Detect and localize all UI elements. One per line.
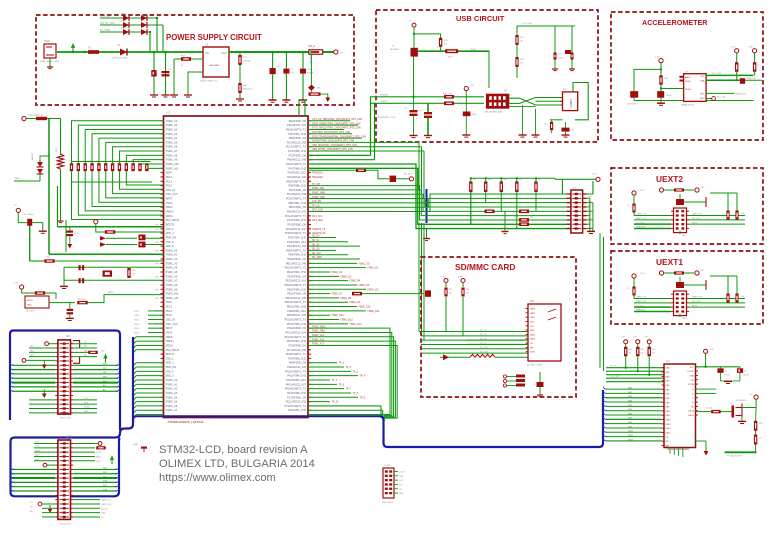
svg-text:FSMC_A5: FSMC_A5 [166, 401, 178, 404]
svg-text:LM1117-IMPX-3.3: LM1117-IMPX-3.3 [200, 81, 218, 83]
svg-text:PA5/USART3_TX: PA5/USART3_TX [286, 180, 306, 183]
UEXT2 resistor left [632, 204, 635, 213]
svg-text:COM: COM [530, 352, 535, 354]
svg-text:MOSI: MOSI [692, 305, 698, 307]
svg-text:47k: 47k [444, 44, 447, 46]
wires mcu bottom-left stubs to bus group1 [136, 336, 163, 338]
wire vbus drop to connector [488, 51, 490, 89]
svg-text:USB-MINIAB-SMD: USB-MINIAB-SMD [484, 111, 503, 114]
svg-text:PG12: PG12 [134, 324, 140, 326]
svg-text:JTCK_SWCLK/TIM1_CH2/USART1_RTS: JTCK_SWCLK/TIM1_CH2/USART1_RTS_CAN [312, 127, 361, 130]
svg-text:DB15: DB15 [666, 433, 672, 435]
svg-text:FSMC_NBL0: FSMC_NBL0 [312, 326, 326, 328]
lcd supply resistors x3 [624, 340, 628, 344]
svg-text:10k: 10k [466, 293, 469, 295]
svg-text:TP_CS: TP_CS [312, 205, 320, 207]
terminal 5V output [334, 50, 338, 54]
wire usb top rail to cap [517, 25, 575, 27]
wire rail above resistor row [72, 161, 151, 163]
terminal +5V mid [464, 86, 468, 90]
wire net JTCK_SWCLK [308, 128, 344, 130]
svg-text:FSMC_D1: FSMC_D1 [368, 268, 379, 270]
backlight bottom rail [755, 445, 757, 453]
diode D3 row [100, 24, 163, 26]
terminal 5V backlight [754, 395, 758, 399]
svg-text:OSC_OUT: OSC_OUT [166, 323, 179, 326]
wire 3v3 trunk to row 227 [57, 186, 59, 227]
wire rail below resistor row [72, 181, 153, 183]
wires sd riser verticals [418, 223, 420, 332]
svg-text:PA7/FSMC_D0: PA7/FSMC_D0 [289, 189, 307, 192]
svg-text:FSMC_A8: FSMC_A8 [166, 284, 178, 287]
jumper JP boot [390, 176, 397, 182]
terminal RST_E [94, 220, 98, 224]
EXT1 red arrow left upper [42, 365, 47, 370]
svg-text:FSMC_A17: FSMC_A17 [312, 343, 325, 346]
svg-text:GND: GND [399, 493, 404, 495]
svg-text:MF-MSMF: MF-MSMF [390, 49, 400, 51]
svg-text:PE4/USART3_TX: PE4/USART3_TX [286, 128, 306, 131]
svg-text:VDDA: VDDA [166, 344, 173, 347]
wire vbus row [418, 50, 489, 52]
EXT1 circle row0 [45, 342, 49, 346]
bus blue loop 1 around EXT1 connector [10, 331, 120, 431]
svg-text:GND: GND [690, 375, 695, 377]
svg-text:PC14: PC14 [166, 180, 173, 183]
lcd controller IC3 body [664, 364, 696, 448]
svg-text:VDD: VDD [530, 321, 535, 323]
svg-text:VDD_1: VDD_1 [166, 232, 175, 235]
svg-text:FSMC_A3: FSMC_A3 [166, 133, 178, 136]
svg-text:ADJ/GND: ADJ/GND [210, 64, 219, 67]
sd card detect circles [503, 375, 506, 378]
esd protection IC U3 [563, 92, 578, 111]
wires lcd top feed rows [625, 356, 627, 367]
svg-text:LED-A: LED-A [688, 410, 695, 413]
svg-text:VSS_5: VSS_5 [166, 370, 174, 373]
svg-text:3.3V_MCU_E: 3.3V_MCU_E [28, 114, 43, 117]
caps C5 C7 C10 output filters [272, 52, 274, 68]
wire row 294 with resistor and jumper [352, 292, 362, 296]
wire diode feed verticals [156, 18, 158, 52]
svg-text:1k: 1k [759, 438, 761, 440]
svg-text:PC1/USART1_TX: PC1/USART1_TX [286, 146, 306, 149]
pullup resistors lcd x5 [469, 181, 472, 192]
svg-text:FSMC_D12: FSMC_D12 [332, 315, 345, 317]
svg-text:PA13/ADC12_IN7: PA13/ADC12_IN7 [286, 383, 307, 386]
cap C lcd 1 [717, 368, 723, 373]
svg-text:10k: 10k [628, 353, 631, 355]
svg-text:PE6/FSMC_D4: PE6/FSMC_D4 [289, 137, 307, 140]
svg-text:PG11: PG11 [134, 320, 140, 322]
svg-text:10k: 10k [652, 353, 655, 355]
cap C3 input [165, 52, 167, 95]
svg-text:SS14: SS14 [121, 13, 127, 15]
svg-text:SS14: SS14 [121, 20, 127, 22]
svg-text:USB6B1: USB6B1 [570, 98, 573, 108]
svg-text:FSMC_D11: FSMC_D11 [368, 311, 381, 313]
lcd controller left pins [662, 367, 665, 369]
svg-text:GND: GND [588, 222, 593, 224]
svg-text:DB13: DB13 [666, 424, 672, 426]
mcu left pin name labels [161, 120, 165, 122]
svg-text:VREF-: VREF- [166, 336, 174, 339]
EXT1 top rows right [73, 343, 97, 345]
crystal gnd stub [63, 280, 65, 286]
svg-text:3.3V: 3.3V [655, 57, 660, 59]
svg-text:SD/MMC CARD: SD/MMC CARD [455, 262, 515, 272]
svg-text:CMD: CMD [530, 317, 535, 319]
svg-text:FSMC_NWE: FSMC_NWE [312, 192, 326, 194]
svg-text:EXT2_CON: EXT2_CON [60, 524, 71, 526]
resistor PTC vertical at regulator out [238, 55, 241, 65]
wire net USB_P [308, 150, 424, 152]
svg-text:R_LED: R_LED [706, 408, 713, 410]
svg-text:GND: GND [27, 305, 32, 307]
wire net OTG_FS_VBUS [308, 120, 350, 122]
svg-text:PG13: PG13 [134, 328, 140, 330]
svg-text:FSMC_A6: FSMC_A6 [166, 405, 178, 408]
gnd down arrow bottom right [705, 447, 707, 452]
series resistors R41 R42 stacked [519, 218, 529, 222]
wire dp to mcu [308, 159, 375, 161]
terminal 3.3V sd 2 [461, 279, 465, 283]
svg-text:PA12/FSMC_D12: PA12/FSMC_D12 [286, 379, 306, 382]
svg-text:3.3V: 3.3V [640, 190, 645, 192]
svg-text:PA1/USART2_TX: PA1/USART2_TX [286, 163, 306, 166]
svg-text:PD10/USART2_TX: PD10/USART2_TX [284, 319, 306, 322]
svg-text:FSMC_D10: FSMC_D10 [359, 307, 372, 309]
terminal 3.3V sd 1 [444, 279, 448, 283]
svg-text:PB10/USART3_TX: PB10/USART3_TX [285, 284, 307, 287]
EXT1 circle mid terminal [22, 359, 26, 363]
svg-text:FSMC_A1: FSMC_A1 [166, 254, 178, 257]
svg-text:FSMC_A0: FSMC_A0 [166, 120, 178, 123]
svg-text:I2C1_SDA: I2C1_SDA [312, 219, 323, 222]
terminal 3.3V lcd rail [596, 177, 600, 181]
caps pair left mid [67, 231, 74, 233]
svg-text:GND: GND [588, 201, 593, 203]
svg-text:SD_MMC_CARD: SD_MMC_CARD [527, 364, 543, 367]
feedback resistor R54 [181, 57, 191, 61]
diode D4 row [100, 31, 150, 33]
diode D1 on rail [120, 49, 127, 56]
svg-text:X-: X- [692, 402, 694, 404]
UEXT1 cap red [676, 282, 684, 288]
accel IC U4 MMA8452Q [684, 74, 707, 102]
UEXT1 cap gnd tee [684, 284, 706, 286]
accel pullup 1 [735, 49, 739, 53]
jtag mini header [383, 468, 394, 498]
svg-text:OLIMEX LTD, BULGARIA 2014: OLIMEX LTD, BULGARIA 2014 [159, 458, 315, 470]
svg-text:100nF: 100nF [558, 58, 565, 60]
sd card connector SD1 [528, 304, 561, 361]
UEXT2 top resistor horizontal [674, 188, 684, 191]
resistor backlight R53 [754, 435, 757, 445]
polyfuse FP2 [411, 48, 418, 57]
svg-text:FSMC_A2: FSMC_A2 [166, 388, 178, 391]
voltage regulator U2 LM1117 [203, 47, 229, 77]
terminal 3.3V lcd right [704, 349, 708, 353]
UEXT2 cap gnd tee [684, 201, 706, 203]
svg-text:FSMC_A9: FSMC_A9 [166, 159, 178, 162]
EXT2 wide rows left bus [12, 468, 55, 470]
EXT2 circle left mid [43, 463, 47, 467]
svg-text:VSSA: VSSA [166, 202, 173, 205]
resistor R rst [105, 230, 116, 233]
wire vdd into accel ic [661, 88, 684, 90]
svg-text:TRACED1: TRACED1 [312, 172, 323, 175]
svg-text:MCP121T: MCP121T [26, 311, 36, 313]
svg-text:VREF+: VREF+ [166, 340, 175, 343]
wire loop to divider [414, 34, 441, 38]
svg-text:MCP1: MCP1 [27, 300, 33, 302]
EXT2 top rows right labels [73, 447, 95, 449]
svg-text:PB2/ADC12_IN3: PB2/ADC12_IN3 [287, 211, 306, 214]
svg-text:LCD_RST: LCD_RST [610, 376, 620, 378]
svg-text:ACC_INT: ACC_INT [717, 96, 726, 99]
svg-text:UART2_RX: UART2_RX [636, 217, 647, 220]
svg-text:TP_7: TP_7 [346, 389, 352, 391]
svg-text:PG10: PG10 [134, 315, 140, 317]
svg-text:UART3_RX: UART3_RX [101, 503, 112, 506]
gnd below lcd bus stub [426, 228, 428, 238]
solder jumper SJ1 [27, 219, 32, 226]
svg-text:5V_VINB: 5V_VINB [100, 29, 110, 32]
svg-text:SD_D3: SD_D3 [312, 249, 320, 251]
wires left mid labeled stubs [148, 310, 164, 312]
fuse F1 [88, 50, 99, 54]
svg-text:PE11/ADC12_IN6: PE11/ADC12_IN6 [286, 262, 307, 265]
diode D2 row [100, 17, 157, 19]
svg-text:FSMC_D6: FSMC_D6 [368, 289, 379, 291]
cap C lcd 2 [737, 368, 743, 373]
UEXT1 terminal 3.3V mid [659, 271, 663, 275]
svg-text:PE5/TIM4_CH2: PE5/TIM4_CH2 [288, 133, 306, 136]
svg-text:TP_8: TP_8 [353, 393, 359, 395]
svg-text:FSMC_A10: FSMC_A10 [166, 163, 180, 166]
cap C25 at 5v [463, 112, 471, 117]
series resistor R39 mid1 [485, 210, 495, 214]
svg-text:RST_E: RST_E [101, 219, 109, 221]
svg-text:PA9/ADC12_IN3: PA9/ADC12_IN3 [287, 366, 306, 369]
svg-text:1M: 1M [132, 274, 135, 276]
UEXT1 left resistor drop [633, 294, 635, 299]
svg-text:FSMC_A11: FSMC_A11 [166, 167, 179, 170]
lcd caps gnd [720, 380, 740, 382]
svg-text:3.3V: 3.3V [644, 337, 649, 339]
svg-text:VDD_5: VDD_5 [166, 245, 175, 248]
svg-text:GND: GND [588, 209, 593, 211]
svg-text:VREF-: VREF- [166, 206, 174, 209]
EXT2 supply arrow right [111, 459, 113, 464]
svg-text:PB14/USART1_TX: PB14/USART1_TX [285, 301, 307, 304]
EXT2 gnd arrow bottom left [49, 505, 51, 509]
wire supervisor out [49, 302, 75, 304]
UEXT1 gnd below connector [679, 314, 681, 318]
svg-text:TDI: TDI [399, 489, 403, 491]
svg-text:SDA_3.3V: SDA_3.3V [747, 77, 757, 80]
svg-text:PC13: PC13 [166, 306, 173, 309]
svg-text:PG1/FSMC_D12: PG1/FSMC_D12 [287, 241, 306, 244]
svg-text:USART3_TX: USART3_TX [312, 228, 326, 231]
svg-text:LED-K: LED-K [688, 415, 695, 417]
resistor R23 vbus divider top [439, 38, 442, 47]
svg-text:FSMC_NBL1: FSMC_NBL1 [312, 331, 326, 333]
svg-text:CON3: CON3 [384, 465, 391, 467]
svg-text:NRST: NRST [166, 198, 173, 201]
svg-text:VIN: VIN [101, 351, 105, 353]
svg-text:SS14: SS14 [121, 27, 127, 29]
svg-text:+5V: +5V [470, 85, 474, 87]
cap C2 input [153, 52, 155, 95]
svg-text:FSMC_A2: FSMC_A2 [166, 258, 178, 261]
UEXT1 pullup resistors right [726, 294, 729, 303]
svg-text:PA4/ADC12_IN4: PA4/ADC12_IN4 [287, 176, 306, 179]
svg-text:GND: GND [588, 218, 593, 220]
wire net USB_DISC [308, 146, 422, 148]
svg-text:OSC_IN: OSC_IN [166, 189, 176, 192]
svg-text:EXT1_CON: EXT1_CON [60, 418, 71, 420]
svg-text:SDA: SDA [700, 80, 705, 83]
fuse FB on 3.3V feed [36, 117, 47, 120]
svg-text:PG9: PG9 [134, 311, 139, 313]
svg-text:PB13/ADC12_IN5: PB13/ADC12_IN5 [286, 297, 307, 300]
resistor R33 row [356, 168, 366, 172]
svg-text:BAT54C: BAT54C [31, 152, 34, 160]
svg-text:PB11/TIM8_CH2: PB11/TIM8_CH2 [287, 288, 306, 291]
wire int1 row [706, 92, 734, 94]
rows right of ic small [696, 388, 717, 390]
svg-text:FSMC_A16: FSMC_A16 [312, 338, 325, 341]
sd series resistor zigzag [470, 354, 495, 357]
svg-text:PA0_WKUP: PA0_WKUP [166, 349, 180, 352]
lcd rail drop left [562, 179, 566, 194]
wire net JTDI [308, 133, 352, 135]
EXT1 supply arrow right [105, 358, 107, 363]
svg-text:R51 10k: R51 10k [78, 299, 85, 301]
svg-text:FSMC_A3: FSMC_A3 [166, 392, 178, 395]
EXT2 top rows left [34, 443, 55, 445]
svg-text:SD_CMD: SD_CMD [480, 351, 489, 353]
svg-text:PD9/ADC12_IN0: PD9/ADC12_IN0 [287, 314, 307, 317]
svg-text:100nF: 100nF [744, 375, 750, 377]
svg-text:+3.3V: +3.3V [399, 472, 405, 474]
UEXT1 terminal right small [695, 271, 699, 275]
svg-text:PE8/USART1_TX: PE8/USART1_TX [286, 249, 306, 252]
svg-text:PB12/FSMC_D8: PB12/FSMC_D8 [287, 293, 306, 296]
svg-text:PF11/USART2_TX: PF11/USART2_TX [285, 215, 306, 218]
svg-text:SS14 DO214AC: SS14 DO214AC [112, 57, 128, 60]
svg-text:10k: 10k [741, 213, 744, 215]
wires bottom right labels [308, 362, 337, 364]
svg-text:TFT_BACKLIGHT: TFT_BACKLIGHT [726, 455, 743, 458]
terminal reset supervisor [20, 285, 24, 289]
UEXT1 terminal 3.3V left [632, 274, 636, 278]
crystal caps [79, 265, 81, 270]
svg-text:USB_P/TIM1_CH2/USART1_RTS_CAN: USB_P/TIM1_CH2/USART1_RTS_CAN [312, 148, 353, 151]
EXT2 wide rows right bus [73, 468, 117, 470]
svg-text:MOSI: MOSI [692, 222, 698, 224]
svg-text:WR: WR [666, 445, 670, 447]
svg-text:LED: LED [317, 88, 321, 90]
svg-text:FSMC_NE1: FSMC_NE1 [312, 188, 325, 190]
wires mid rows turn down to bus [308, 328, 390, 414]
config resistors stacked [139, 235, 146, 241]
svg-text:BOOT0: BOOT0 [166, 353, 175, 356]
wire LED gnd arrow [321, 94, 328, 97]
svg-text:FSMC_A7: FSMC_A7 [166, 150, 178, 153]
svg-text:SD_D2: SD_D2 [312, 244, 320, 246]
UEXT2 dashed frame [611, 168, 763, 244]
wire diode top to trunk [40, 156, 50, 162]
svg-text:PC13: PC13 [166, 176, 173, 179]
wires lcd riser bundle from connector area [599, 233, 601, 368]
svg-text:UART2_TX: UART2_TX [636, 213, 647, 216]
svg-text:SPI_SCK: SPI_SCK [692, 218, 701, 220]
svg-text:PC2/TIM8_CH2: PC2/TIM8_CH2 [288, 150, 306, 153]
wires staircase top group to resistor array [72, 121, 164, 163]
svg-text:PE14/FSMC_D4: PE14/FSMC_D4 [287, 275, 306, 278]
svg-text:GMM6_INT: GMM6_INT [736, 93, 747, 95]
svg-text:3.3V: 3.3V [633, 337, 638, 339]
svg-text:PA0/ADC12_IN0: PA0/ADC12_IN0 [287, 159, 306, 162]
svg-text:3.3V: 3.3V [14, 283, 19, 285]
series resistor array RN 22R row [70, 163, 73, 171]
svg-text:JTDO_TRACESWO/TIM1_CH2/USART1_: JTDO_TRACESWO/TIM1_CH2/USART1_RTS_CAN [312, 135, 366, 138]
wire net JTMS_SWDIO [308, 124, 358, 126]
wire scl row [706, 74, 753, 76]
svg-text:TP_INT: TP_INT [312, 184, 321, 186]
resistor backlight R52 [754, 421, 757, 431]
wires fsmc data rows [308, 262, 357, 264]
svg-text:MMA8452QT: MMA8452QT [681, 104, 695, 107]
config arrows rows [100, 236, 106, 241]
svg-text:10k: 10k [449, 293, 452, 295]
bus blue right run to LCD controller [380, 390, 604, 447]
UEXT2 terminal 3.3V mid [659, 188, 663, 192]
divider resistors R24 R25 [515, 35, 518, 45]
accelerometer dashed frame [611, 12, 763, 140]
terminal VBUS sense top [412, 23, 416, 27]
svg-text:TP_CS: TP_CS [610, 365, 617, 367]
bus blue mcu-bottom vertical at 133 [120, 337, 133, 433]
UEXT1 dashed frame [611, 251, 763, 324]
EXT1 wide rows right bus [73, 364, 118, 366]
svg-text:EXT2: EXT2 [66, 437, 72, 439]
svg-text:TP_2: TP_2 [346, 367, 352, 369]
svg-text:DB12: DB12 [628, 439, 634, 441]
microcontroller IC1 STM32F103Z body [164, 116, 309, 418]
svg-text:FSMC_A8: FSMC_A8 [166, 154, 178, 157]
svg-text:PA0_WKUP: PA0_WKUP [166, 219, 180, 222]
svg-text:USB_DISC/TIM1_CH2/USART1_RTS_C: USB_DISC/TIM1_CH2/USART1_RTS_CAN [312, 144, 357, 147]
svg-text:SCL/SCK: SCL/SCK [636, 305, 645, 307]
resistor R_LED row [711, 410, 721, 413]
esd bottom cluster [550, 119, 563, 121]
wires lcd data fan from bus [606, 388, 662, 390]
EXT1 right bracket mid [73, 357, 80, 363]
UEXT1 wires left rows [634, 298, 671, 300]
svg-text:PB0/TIM4_CH2: PB0/TIM4_CH2 [288, 202, 306, 205]
svg-text:BOOT0: BOOT0 [166, 223, 175, 226]
svg-text:USBDM: USBDM [380, 94, 388, 96]
UEXT2 terminal right small [695, 188, 699, 192]
svg-text:VDD_1: VDD_1 [166, 362, 175, 365]
svg-text:VSS_1: VSS_1 [166, 228, 174, 231]
terminal BD_USB_E [16, 208, 20, 212]
svg-text:POWER SUPPLY CIRCUIT: POWER SUPPLY CIRCUIT [166, 33, 262, 42]
